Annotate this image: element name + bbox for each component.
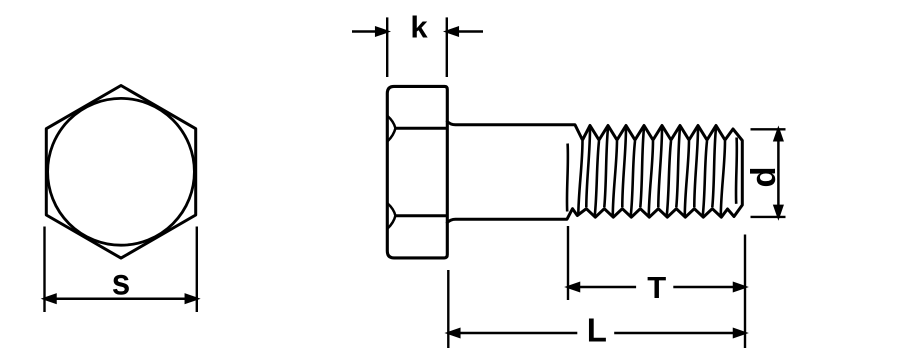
dimension k: right extension line xyxy=(446,17,448,77)
dimension d: bottom extension line xyxy=(751,216,786,218)
dimension T: dimension line with arrows xyxy=(568,283,745,291)
thread flank lines (root to crest) xyxy=(578,141,725,215)
dimension s: dimension line with arrows xyxy=(45,295,197,303)
dimension L: dimension line with arrows xyxy=(448,329,745,337)
hex head side view: outline xyxy=(387,86,447,258)
dimension s: left extension line xyxy=(43,227,45,313)
svg-text:T: T xyxy=(647,270,666,305)
hex head side view: lower chamfer wedge arcs xyxy=(388,203,396,228)
dimension s: right extension line xyxy=(196,227,198,313)
dimension T/L: shared right extension line xyxy=(744,235,746,349)
dimension d: top extension line xyxy=(751,128,786,130)
dimension L: left extension line xyxy=(447,270,449,348)
dimension k: left extension line xyxy=(386,17,388,77)
svg-text:k: k xyxy=(410,10,428,45)
thread runout line xyxy=(566,144,570,212)
hex head side view: upper face line xyxy=(395,127,447,130)
dimension T: left extension line xyxy=(567,226,569,300)
svg-text:s: s xyxy=(112,262,131,303)
svg-text:d: d xyxy=(745,166,783,187)
hex head side view: lower face line xyxy=(395,214,447,217)
hex head front view: chamfer circle (inscribed) xyxy=(48,98,195,245)
hex head front view: hexagon outline xyxy=(46,86,195,259)
bolt shank and thread silhouette xyxy=(447,122,742,223)
dimension d: dimension line with arrows xyxy=(775,129,783,217)
dimension k: leader lines with arrows xyxy=(352,28,483,36)
hex head side view: upper chamfer wedge arcs xyxy=(388,116,396,141)
svg-text:L: L xyxy=(587,312,607,349)
thread flank lines (crest to root) xyxy=(586,128,716,208)
bolt end chamfer line xyxy=(735,138,738,204)
